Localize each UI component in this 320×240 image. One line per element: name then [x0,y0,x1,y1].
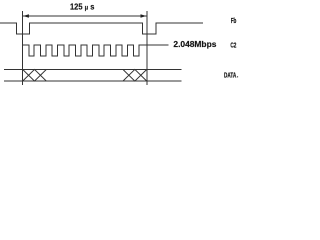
arrow left (points left toward 125us start) [23,14,29,17]
wire C2 clock waveform [23,45,169,56]
svg-text:C2: C2 [230,42,236,49]
svg-text:125 μ s: 125 μ s [70,3,95,12]
svg-text:DATA: DATA [224,70,236,79]
wire dimension line 125us [23,15,147,17]
node DATA crosshatch right [123,69,147,81]
wire DATA bus upper line [4,68,182,70]
node left frame marker vertical [22,11,24,85]
svg-text:2.048Mbps: 2.048Mbps [173,39,216,49]
node right frame marker vertical [146,11,148,85]
wire Fb waveform [0,23,203,34]
svg-text:Fb: Fb [231,18,237,25]
label DATA trailing dot [237,76,238,77]
wire DATA bus lower line [4,80,182,82]
arrow right (points right toward 125us end) [141,14,147,17]
node DATA crosshatch left [23,69,47,81]
